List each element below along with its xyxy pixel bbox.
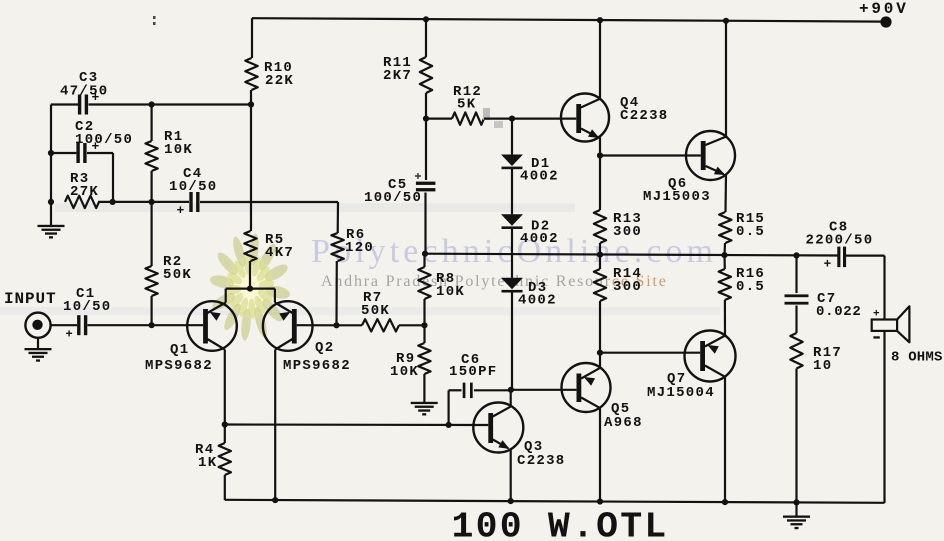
node Q4emitter/Q6base [597, 152, 603, 158]
svg-text:MJ15004: MJ15004 [647, 385, 715, 401]
node R3row/R1/R2/C4 [149, 199, 155, 205]
wire C6 to node [474, 389, 511, 391]
svg-text:300: 300 [613, 224, 642, 240]
svg-text:Q2: Q2 [315, 340, 334, 356]
ground input jack [25, 338, 52, 362]
wire R12 to Q4 base [484, 117, 576, 119]
wire Q1 collector down [224, 350, 226, 425]
svg-text:MJ15003: MJ15003 [643, 189, 711, 205]
resistor R6 [331, 202, 374, 325]
node R14/Q5emitter/Q7base [597, 350, 603, 356]
svg-text:50K: 50K [163, 267, 192, 283]
wire bottom rail [225, 500, 885, 503]
transistor Q6 [643, 131, 735, 205]
node R11/R12/C5 [423, 116, 429, 122]
svg-text:10: 10 [813, 358, 832, 374]
wire C2 right drop [112, 153, 114, 202]
svg-text:50K: 50K [361, 303, 390, 319]
svg-text:10/50: 10/50 [63, 299, 112, 315]
resistor R3 [65, 171, 99, 208]
svg-text:0.022: 0.022 [816, 304, 862, 320]
wire C6 branch [449, 390, 462, 425]
wire Q4 emitter down [599, 137, 601, 155]
wire D1-D2 [511, 169, 513, 214]
capacitor C6 [449, 352, 498, 398]
resistor R5 [244, 105, 294, 289]
wire C3 row [51, 103, 251, 105]
capacitor C2 [75, 119, 133, 163]
node rail/C7 [793, 252, 799, 258]
svg-text:2K7: 2K7 [383, 68, 412, 84]
transistor Q3 [473, 403, 565, 470]
wire Q2 base to R6 [297, 324, 337, 326]
diode D2 [501, 214, 559, 247]
node D3/C6/Q3/Q5 [508, 387, 514, 393]
node bottom/Q5 collector [597, 498, 603, 504]
svg-text:0.5: 0.5 [736, 279, 765, 295]
svg-text:C2238: C2238 [620, 108, 669, 124]
svg-text:C2238: C2238 [517, 453, 566, 469]
wire Q2 emitter up [274, 289, 276, 303]
capacitor C5 [364, 119, 435, 254]
capacitor C3 [60, 70, 109, 115]
svg-text:300: 300 [613, 279, 642, 295]
wire Q3 collector up [510, 390, 512, 407]
svg-text:47/50: 47/50 [60, 84, 109, 100]
terminal +90V [859, 0, 909, 28]
diode D3 [501, 278, 557, 309]
node C2/R3 [110, 199, 116, 205]
ground left [38, 202, 65, 239]
label title 100 W.OTL [452, 507, 669, 541]
resistor R16 [719, 255, 766, 335]
node R12/D1/Q4base [509, 116, 515, 122]
wire Q1 emitter up [225, 289, 227, 303]
resistor R13 [594, 156, 642, 255]
svg-text:4K7: 4K7 [265, 245, 294, 261]
node rail/R13/R14 [597, 252, 603, 258]
wire R12 left [426, 117, 452, 119]
resistor R10 [245, 18, 294, 104]
resistor R17 [790, 333, 842, 503]
svg-text:27K: 27K [70, 184, 99, 200]
svg-text:2200/50: 2200/50 [806, 233, 874, 249]
svg-text:10K: 10K [390, 364, 419, 380]
svg-text:4002: 4002 [518, 293, 557, 309]
wire Q7 base [600, 352, 700, 354]
resistor R7 [337, 290, 425, 332]
wire collector line to Q3 [225, 423, 489, 426]
transistor Q7 [647, 331, 736, 402]
wire Q3 emitter down [510, 450, 512, 502]
node top rail / Q4 collector [597, 17, 603, 23]
svg-text:100/50: 100/50 [75, 132, 133, 148]
resistor R12 [452, 84, 484, 125]
resistor R4 [195, 425, 231, 501]
wire speaker down [883, 331, 885, 503]
svg-text:Q1: Q1 [170, 342, 189, 358]
artifact colon speck [153, 16, 156, 25]
wire R3 row [98, 201, 189, 203]
svg-text:8 OHMS: 8 OHMS [891, 350, 943, 366]
watermark flower logo [209, 233, 291, 342]
resistor R14 [594, 255, 642, 353]
speaker SP1 [872, 306, 943, 365]
capacitor C7 [785, 255, 862, 333]
resistor R1 [145, 105, 193, 202]
node R5 bottom [247, 286, 253, 292]
svg-text:10K: 10K [164, 142, 193, 158]
ground bottom right [783, 502, 810, 529]
svg-text:+: + [873, 309, 880, 321]
svg-text:1K: 1K [198, 455, 217, 471]
transistor Q2 [263, 301, 351, 374]
svg-text:+: + [66, 328, 73, 342]
wire C8 to speaker [846, 256, 885, 320]
wire emitter rail [226, 288, 275, 290]
svg-text:120: 120 [345, 240, 374, 256]
wire Q5 base [511, 389, 577, 391]
wire C2 row [51, 152, 113, 154]
svg-text:MPS9682: MPS9682 [145, 358, 213, 374]
node Q1 collector / R4 [222, 421, 228, 427]
artifact smudge [483, 108, 503, 128]
svg-text:A968: A968 [604, 415, 643, 431]
resistor R15 [719, 211, 765, 255]
node left/C2 [48, 150, 54, 156]
wire Q2 collector down [274, 350, 276, 501]
transistor Q5 [562, 363, 643, 431]
node C3/R10/R5 [248, 101, 254, 107]
node bottom/ground [793, 499, 799, 505]
resistor R2 [145, 202, 192, 325]
wire Q4 collector up [599, 20, 601, 99]
svg-text:4002: 4002 [520, 231, 559, 247]
capacitor C4 [169, 166, 218, 218]
watermark subtitle [321, 273, 668, 290]
svg-text:5K: 5K [457, 97, 476, 113]
resistor R8 [418, 254, 465, 326]
node C6/collector line [446, 422, 452, 428]
wire D3 down [511, 293, 513, 390]
node C5/R8/rail [422, 251, 428, 257]
node R6/R7/Q2base [333, 322, 339, 328]
svg-text:10K: 10K [436, 284, 465, 300]
svg-text:150PF: 150PF [449, 364, 498, 380]
label INPUT [4, 290, 57, 308]
capacitor C8 [806, 220, 874, 272]
node bottom/Q7 collector [722, 499, 728, 505]
wire Q4 to Q6 base [600, 154, 701, 156]
resistor R11 [383, 19, 432, 118]
svg-text:100 W.OTL: 100 W.OTL [452, 507, 669, 541]
node input/R2 [149, 322, 155, 328]
resistor R9 [390, 325, 431, 402]
diode D1 [501, 119, 559, 185]
wire Q5 collector down [599, 408, 601, 502]
wire output mid rail [425, 254, 838, 256]
node bottom/Q2 collector [272, 497, 278, 503]
svg-text:100/50: 100/50 [364, 190, 422, 206]
node R7/R8/R9 [421, 322, 427, 328]
wire +90V top rail [252, 18, 884, 21]
wire left vertical [50, 105, 52, 204]
capacitor C1 [63, 286, 112, 342]
transistor Q1 [145, 301, 237, 374]
wire Q5 emitter up [599, 353, 601, 368]
input jack J1 [25, 313, 50, 338]
svg-text:+: + [824, 257, 832, 272]
node top rail / R11 [423, 16, 429, 22]
node top rail / Q6 collector [723, 18, 729, 24]
transistor Q4 [561, 94, 669, 142]
wire C4 row to R6 [200, 201, 338, 203]
watermark title [311, 233, 717, 270]
svg-text:10/50: 10/50 [169, 179, 218, 195]
wire D2-D3 [511, 229, 513, 278]
svg-text:4002: 4002 [520, 169, 559, 185]
wire C1 to Q1 base [88, 324, 204, 326]
svg-text:+90V: +90V [859, 0, 909, 18]
svg-text:INPUT: INPUT [4, 290, 57, 308]
svg-text:22K: 22K [265, 73, 294, 89]
svg-text:MPS9682: MPS9682 [283, 358, 351, 374]
wire Q6 emitter down [724, 175, 727, 213]
node bottom/Q3 emitter [508, 498, 514, 504]
node left/R3/ground [48, 199, 54, 205]
ground R9 [411, 402, 438, 416]
node C3/R1 [149, 101, 155, 107]
svg-text:+: + [177, 203, 185, 218]
node rail/R15/R16 [721, 252, 727, 258]
wire Q6 collector up [725, 21, 727, 137]
wire jack to C1 [51, 324, 77, 326]
wire Q7 collector down [724, 377, 726, 503]
svg-text:0.5: 0.5 [736, 224, 765, 240]
